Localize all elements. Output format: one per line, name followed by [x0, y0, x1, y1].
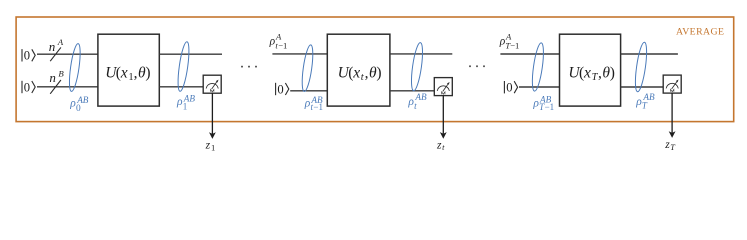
svg-text:): )	[145, 65, 150, 82]
label n^A	[49, 37, 64, 54]
wire q2 block3 in	[519, 86, 560, 88]
wire q2 block2 out	[390, 90, 434, 92]
svg-text:0: 0	[76, 104, 81, 114]
label rho_{T-1}^AB	[532, 95, 554, 113]
label rho_{t-1}^A	[269, 31, 288, 50]
state ellipse rho_T^AB	[633, 42, 649, 93]
svg-text:t: t	[414, 101, 417, 111]
svg-text:A: A	[505, 31, 512, 41]
svg-text:AB: AB	[539, 95, 552, 105]
unitary box U(x_t,theta)	[327, 34, 390, 106]
svg-text:z: z	[664, 138, 670, 151]
svg-text:z: z	[205, 139, 211, 152]
label rho_{T-1}^A	[499, 31, 520, 50]
label z_t	[436, 138, 445, 152]
wire q1 block3 in	[500, 53, 559, 55]
svg-text:,: ,	[598, 65, 602, 82]
svg-text:1: 1	[211, 143, 215, 153]
wire q2 block3 out	[621, 86, 664, 88]
label n^B	[49, 68, 64, 85]
label AVERAGE	[676, 27, 724, 38]
arrow z1	[209, 93, 216, 139]
svg-text:x: x	[120, 65, 128, 82]
state ellipse rho_{T-1}^AB	[530, 42, 546, 92]
label z_T	[664, 138, 676, 152]
ket |0> q2 block1	[22, 80, 35, 94]
svg-text:AB: AB	[76, 95, 89, 105]
cdots 1	[241, 66, 257, 68]
svg-text:0: 0	[277, 82, 283, 96]
svg-text:AB: AB	[310, 95, 323, 105]
wire q2 block1 out	[159, 86, 203, 88]
svg-text:B: B	[58, 68, 64, 78]
state ellipse rho_0^AB	[67, 43, 82, 92]
wire q1 block2 in	[272, 53, 327, 55]
svg-text:n: n	[49, 39, 56, 54]
ket |0> block2	[276, 82, 289, 96]
svg-text:AVERAGE: AVERAGE	[676, 27, 724, 38]
label rho_T^AB	[635, 92, 655, 111]
state ellipse rho_{t-1}^AB	[300, 44, 315, 92]
svg-text:x: x	[583, 65, 591, 82]
svg-text:0: 0	[506, 81, 512, 95]
svg-text:z: z	[436, 138, 442, 151]
meter M2	[434, 78, 452, 96]
wire q2 block1 in	[37, 86, 98, 88]
ket |0> block3	[504, 81, 517, 95]
svg-text:0: 0	[24, 80, 30, 94]
bus slash q2	[50, 80, 61, 94]
label rho_0^AB	[69, 95, 89, 114]
label rho_{t-1}^AB	[304, 95, 323, 112]
label z_1	[205, 139, 216, 153]
svg-text:,: ,	[365, 65, 369, 82]
wire q1 block1 out	[159, 53, 222, 55]
arrow z_t	[440, 96, 447, 139]
border frame AVERAGE box	[16, 17, 734, 122]
svg-text:t: t	[442, 143, 445, 152]
arrow z_T	[669, 93, 676, 138]
ket |0> q1 block1	[22, 49, 35, 63]
svg-text:AB: AB	[642, 92, 655, 102]
state ellipse rho_1^AB	[176, 41, 191, 92]
svg-text:A: A	[57, 37, 64, 47]
svg-text:): )	[610, 65, 615, 82]
bus slash q1	[50, 47, 61, 61]
svg-text:,: ,	[134, 65, 138, 82]
svg-text:−1: −1	[510, 41, 519, 51]
wire q1 block1 in	[37, 53, 98, 55]
wire q1 block3 out	[621, 53, 678, 55]
unitary box U(x_1,theta)	[98, 34, 159, 106]
svg-text:n: n	[49, 70, 56, 85]
svg-text:0: 0	[24, 49, 30, 63]
meter M1	[203, 75, 221, 93]
unitary box U(x_T,theta)	[560, 34, 621, 106]
meter M3	[663, 75, 681, 93]
label rho_t^AB	[407, 92, 427, 111]
svg-text:): )	[376, 65, 381, 82]
svg-text:T: T	[642, 101, 648, 111]
state ellipse rho_t^AB	[409, 42, 424, 91]
label rho_1^AB	[176, 94, 195, 112]
svg-text:T: T	[670, 143, 676, 152]
wire q2 block2 in	[290, 90, 327, 92]
svg-text:x: x	[352, 65, 360, 82]
svg-text:AB: AB	[183, 94, 196, 104]
svg-text:AB: AB	[414, 92, 427, 102]
cdots 2	[469, 65, 485, 67]
svg-text:−1: −1	[278, 41, 287, 51]
svg-text:A: A	[275, 31, 282, 41]
wire q1 block2 out	[390, 53, 452, 55]
